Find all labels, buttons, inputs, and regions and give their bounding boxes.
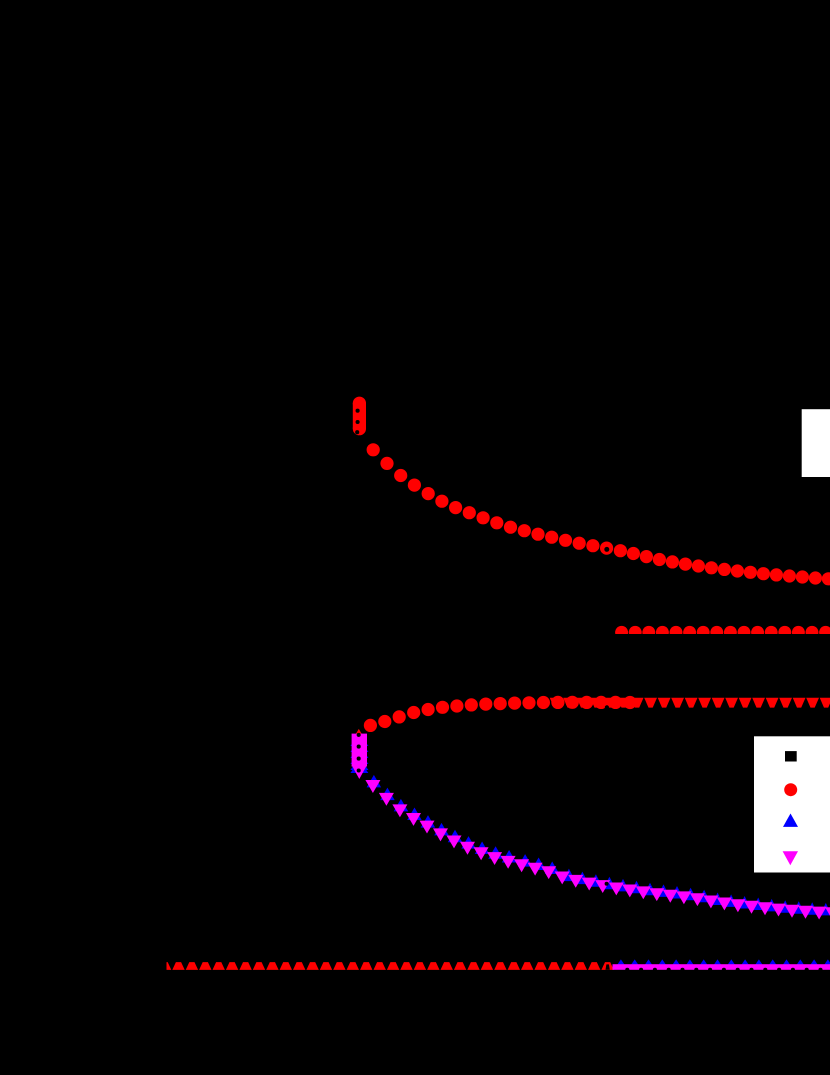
magenta down-triangle start blob (overlapping markers) [352,734,367,767]
legend box 1 (clipped at right edge) [802,409,830,477]
red up-triangle cap on magenta blob [352,729,365,740]
red circle series C1 upper branch [367,443,380,456]
hollow marker on magenta curve at x~607 [605,882,609,886]
blue up-triangle tips bottom row [617,959,624,964]
red down-triangle row on plateau y=703 [550,698,563,708]
black marker on plateau at x~607 [605,705,609,709]
black square markers on magenta blob [357,733,361,737]
red circle series C2 plateau branch [364,719,377,732]
magenta down-triangle series descending curve [365,780,380,793]
black square markers on C1 start blob [356,409,360,413]
legend black square marker [785,751,797,761]
hollow trapezoid marker at x~607 [606,964,610,969]
legend blue up-triangle marker [783,814,798,827]
blue up-triangle series descending curve [367,775,382,788]
blue up-triangle markers in start blob [350,733,368,746]
hollow marker on upper red curve at x~607 [604,547,609,552]
red circle row (bottoms hidden by black squares) y=630 [615,626,628,634]
black markers over magenta band [625,968,629,972]
magenta down-triangle row merged band y=967 [613,964,830,970]
legend magenta down-triangle marker [783,851,798,865]
legend red circle marker [784,783,797,796]
legend box 2 (clipped at right edge) [754,736,830,872]
red circle series C1 start blob (overlapping markers) [353,403,366,429]
red truncated up-triangle row bottom left y=966 [167,962,172,970]
